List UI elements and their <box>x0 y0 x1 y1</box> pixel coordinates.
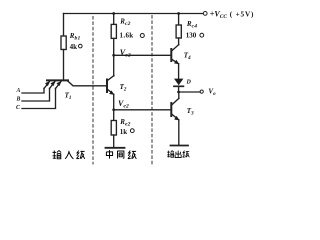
wire node Vc2 to T4 base <box>114 54 172 56</box>
wire Rc2 branch top <box>113 14 115 25</box>
wire T3 collector up <box>178 92 180 98</box>
transistor T1 emitter 3 <box>56 81 62 88</box>
transistor T3 emitter diagonal <box>171 114 179 120</box>
transistor T1 base bar <box>47 79 68 81</box>
svg-text:C: C <box>16 105 20 111</box>
label stage: middle stage (zhong jian ji) <box>106 150 112 159</box>
label stage: output stage (shu chu ji) <box>167 151 174 158</box>
ground output stage <box>171 145 189 147</box>
wire output node to terminal <box>179 91 200 93</box>
wire Rc4 branch top <box>178 14 180 26</box>
wire Rc4 to T4 collector <box>178 38 180 45</box>
transistor T3 base bar <box>170 103 172 116</box>
transistor T1 emitter 1 arrow <box>45 81 50 86</box>
junction rail-Rc4 <box>177 12 180 15</box>
wire input C <box>22 88 56 108</box>
transistor T4 base bar <box>170 49 172 61</box>
wire Rc2 to node Vc2 <box>113 38 115 55</box>
svg-text:B: B <box>16 96 21 102</box>
label stage: input stage (shu ru ji) <box>53 150 62 159</box>
stage divider dashed line 1 <box>92 17 94 165</box>
transistor T1 emitter 2 <box>50 81 56 88</box>
svg-text:1.6k: 1.6k <box>120 32 134 40</box>
svg-text:130: 130 <box>186 31 197 39</box>
wire T2 collector up <box>113 55 115 76</box>
transistor T1 emitter 3 arrow <box>57 81 62 86</box>
wire Rb1 to T1 base <box>63 50 65 81</box>
svg-text:4k: 4k <box>70 43 78 51</box>
transistor T4 emitter diagonal <box>171 59 178 64</box>
junction node Vc2 <box>112 54 115 57</box>
wire VCC top rail <box>64 13 204 15</box>
wire Rb1 branch top <box>63 14 65 37</box>
transistor T4 emitter arrow <box>174 60 179 64</box>
svg-text:+VCC ( +5V): +VCC ( +5V) <box>210 9 254 19</box>
transistor T3 emitter arrow <box>174 116 179 121</box>
wire node Ve2 to T3 base <box>114 109 172 111</box>
transistor T1 collector <box>68 81 108 86</box>
wire T3 emitter to ground <box>178 120 180 145</box>
wire diode to output node <box>178 86 180 92</box>
junction node Ve2 <box>112 108 115 111</box>
transistor T3 collector diagonal <box>171 98 179 105</box>
transistor T1 emitter 1 <box>44 81 50 88</box>
wire T2 emitter to node Ve2 <box>113 94 115 109</box>
terminal VCC circle <box>203 12 207 16</box>
wire T4 emitter to diode <box>178 64 180 79</box>
stage divider dashed line 2 <box>151 16 153 165</box>
junction output node <box>177 91 180 94</box>
wire input A <box>22 88 44 93</box>
transistor T1 emitter 2 arrow <box>51 81 56 86</box>
transistor T4 collector diagonal <box>171 45 179 52</box>
svg-text:D: D <box>186 80 192 86</box>
diode D body <box>174 79 183 86</box>
resistor Rc4 body <box>176 25 181 38</box>
svg-text:A: A <box>16 88 21 94</box>
transistor T2 emitter diagonal <box>107 89 114 94</box>
ground middle stage <box>106 147 125 149</box>
transistor T2 collector diagonal <box>107 76 114 81</box>
transistor T2 base bar <box>106 80 108 93</box>
diode D cathode bar <box>174 85 183 87</box>
wire Ve2 to Re2 <box>113 110 115 121</box>
resistor Re2 body <box>111 121 116 136</box>
resistor Rc2 body <box>111 24 116 38</box>
terminal Vo circle <box>200 90 203 93</box>
transistor T2 emitter arrow <box>109 90 114 94</box>
resistor Rb1 body <box>61 36 66 50</box>
junction rail-Rc2 <box>112 12 115 15</box>
wire input B <box>22 88 50 101</box>
svg-text:1k: 1k <box>120 128 128 136</box>
wire Re2 to ground <box>113 135 115 148</box>
